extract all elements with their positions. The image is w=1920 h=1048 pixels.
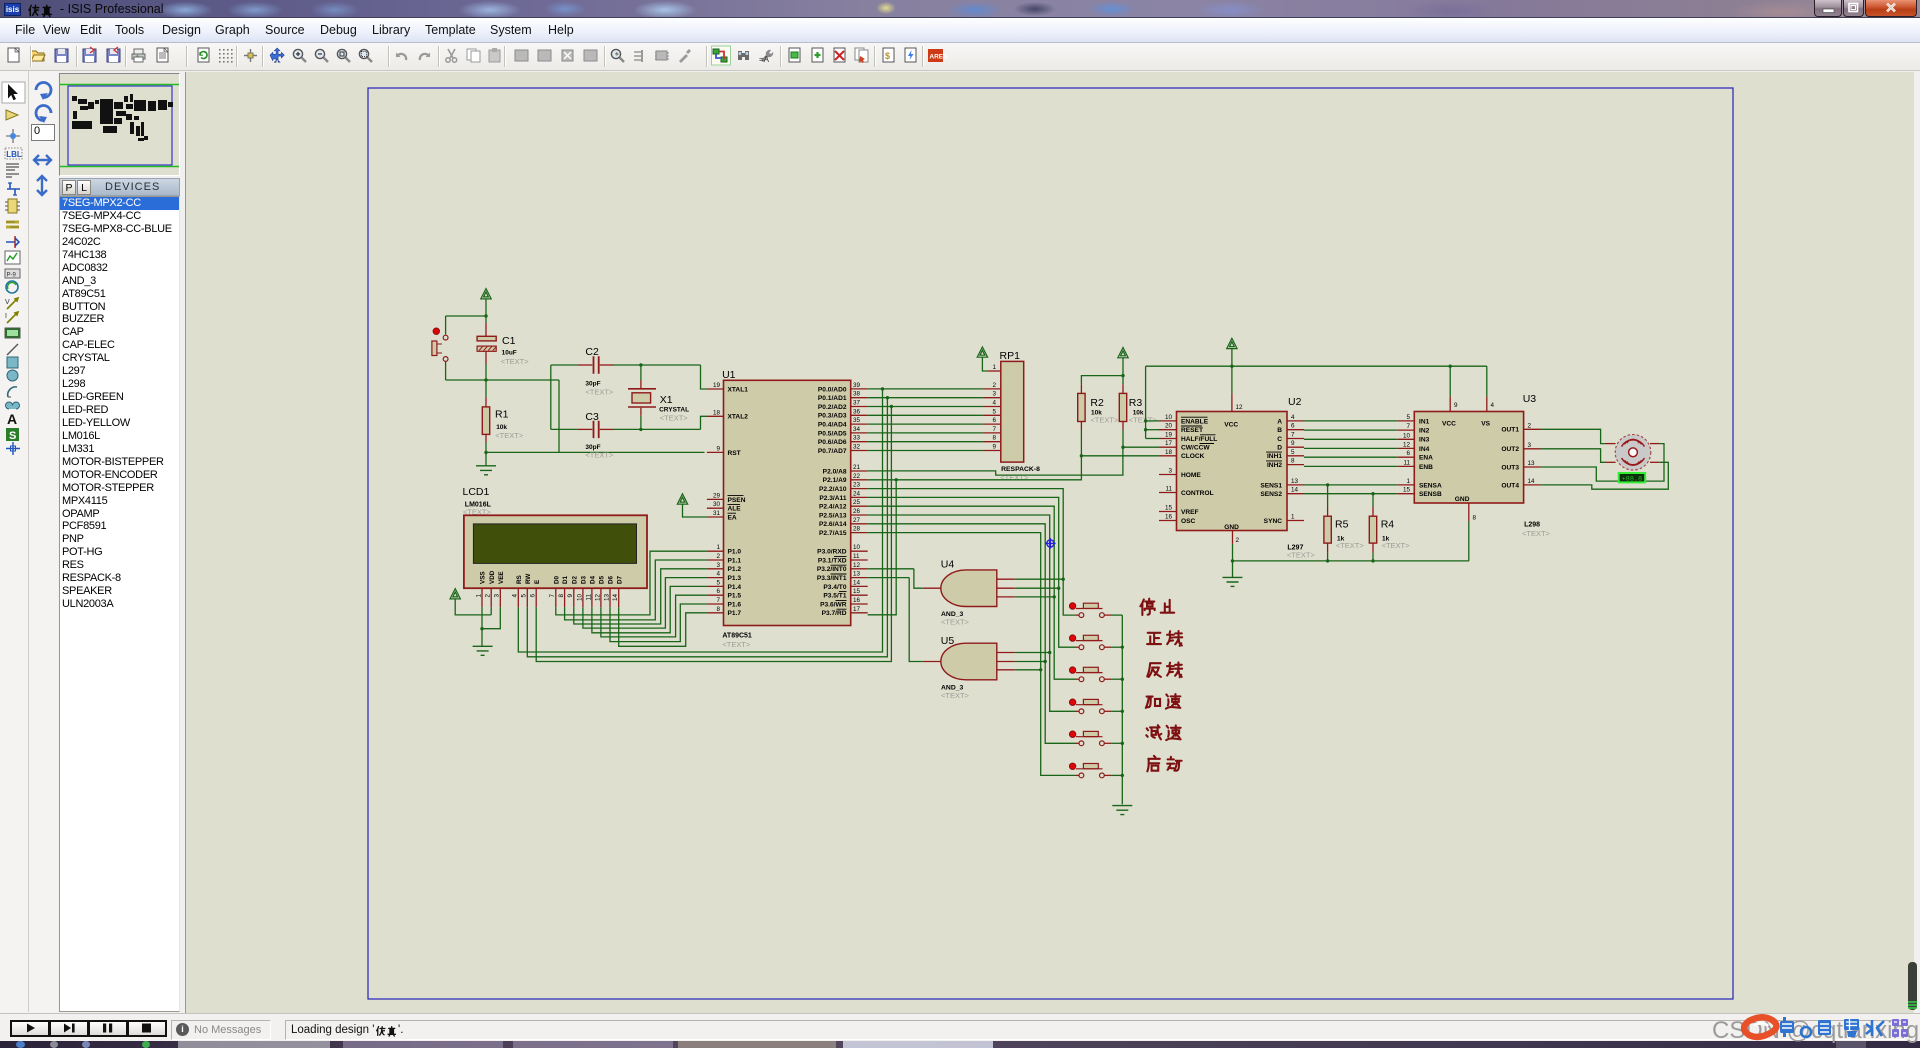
wire P2.6 to button 5	[868, 524, 1076, 744]
op U1 AT89C51	[724, 380, 851, 625]
svg-text:SENS1: SENS1	[1260, 482, 1282, 489]
svg-text:OUT4: OUT4	[1501, 482, 1519, 489]
svg-text:24: 24	[853, 490, 861, 497]
svg-text:ENA: ENA	[1419, 455, 1433, 462]
svg-text:P0.1/AD1: P0.1/AD1	[818, 395, 847, 402]
resistor R4	[1372, 494, 1374, 507]
wire SENS1	[1304, 484, 1397, 486]
svg-text:P-9: P-9	[7, 273, 17, 279]
ground	[1112, 806, 1132, 815]
svg-text:10: 10	[853, 544, 861, 551]
resistor R3	[1119, 393, 1126, 421]
svg-text:OSC: OSC	[1181, 518, 1196, 525]
U1 pin 12 P3.2/INT0	[851, 568, 868, 570]
ground	[1223, 577, 1243, 586]
svg-text:INH2: INH2	[1267, 462, 1282, 469]
svg-text:6: 6	[1406, 450, 1410, 457]
svg-text:32: 32	[853, 444, 861, 451]
U2 pin 6 B	[1287, 429, 1304, 431]
svg-text:10uF: 10uF	[502, 350, 517, 357]
svg-text:2: 2	[485, 594, 492, 598]
svg-text:6: 6	[530, 594, 537, 598]
svg-text:13: 13	[603, 594, 610, 602]
svg-text:OUT1: OUT1	[1501, 427, 1519, 434]
svg-text:I: I	[5, 313, 7, 320]
svg-text:D4: D4	[590, 575, 597, 584]
svg-text:3: 3	[494, 594, 501, 598]
svg-text:3: 3	[1528, 442, 1532, 449]
wire button 1 right	[1112, 614, 1122, 616]
svg-text:U1: U1	[722, 369, 736, 381]
svg-text:26: 26	[853, 508, 861, 515]
svg-text:D1: D1	[562, 575, 569, 584]
op U2 L297	[1177, 412, 1288, 531]
wire P3.2 row	[868, 568, 914, 570]
svg-text:14: 14	[1291, 487, 1299, 494]
svg-text:$: $	[885, 51, 890, 61]
svg-text:10: 10	[1165, 414, 1173, 421]
svg-text:P0.7/AD7: P0.7/AD7	[818, 448, 847, 455]
svg-text:D: D	[1277, 445, 1282, 452]
svg-text:B: B	[1277, 427, 1282, 434]
svg-text:P1.5: P1.5	[728, 593, 742, 600]
svg-text:P0.5/AD5: P0.5/AD5	[818, 430, 847, 437]
svg-text:P0.0/AD0: P0.0/AD0	[818, 386, 847, 393]
svg-text:31: 31	[713, 510, 721, 517]
U3 pin 15 SENSB	[1397, 493, 1414, 495]
label 减速	[1146, 725, 1161, 739]
svg-text:9: 9	[1291, 440, 1295, 447]
svg-text:CLOCK: CLOCK	[1181, 453, 1205, 460]
svg-text:4: 4	[992, 400, 996, 407]
svg-text:OUT2: OUT2	[1501, 446, 1519, 453]
wire R3 bottom to CW	[1122, 422, 1124, 431]
svg-text:R1: R1	[495, 409, 509, 421]
svg-text:34: 34	[853, 426, 861, 433]
svg-text:4: 4	[716, 571, 720, 578]
svg-text:OUT3: OUT3	[1501, 464, 1519, 471]
motor MOTOR-BISTEPPER	[1615, 435, 1651, 471]
svg-text:U3: U3	[1523, 393, 1537, 405]
RP1 pin 2	[983, 388, 1001, 390]
resistor R5	[1327, 485, 1329, 507]
wire SENS2	[1304, 493, 1397, 495]
svg-text:RW: RW	[525, 574, 532, 584]
svg-text:15: 15	[853, 588, 861, 595]
svg-text:16: 16	[853, 597, 861, 604]
svg-text:7: 7	[716, 597, 720, 604]
capacitor C3	[551, 428, 577, 430]
RP1 pin 1	[982, 357, 988, 371]
svg-text:5: 5	[1291, 449, 1295, 456]
LCD pin 13 D6	[609, 588, 611, 607]
wire VCC rail	[1146, 365, 1487, 367]
svg-text:P1.6: P1.6	[728, 601, 742, 608]
wire button 3 right	[1112, 678, 1122, 680]
svg-text:P2.4/A12: P2.4/A12	[819, 504, 847, 511]
wire x559 down	[558, 380, 560, 452]
svg-text:<TEXT>: <TEXT>	[941, 618, 970, 627]
U2 pin 1 SYNC	[1287, 520, 1304, 522]
wire P0.1 to RP1	[868, 397, 983, 399]
RP1 pin 6	[983, 423, 1001, 425]
wire RESET row	[1146, 429, 1159, 431]
wire P2.1 to P3.7	[868, 480, 897, 615]
svg-text:P3.4/T0: P3.4/T0	[823, 584, 846, 591]
svg-text:3: 3	[992, 391, 996, 398]
svg-text:7: 7	[1406, 423, 1410, 430]
wire D6-P1.6	[610, 604, 707, 642]
label 反转	[1147, 663, 1161, 677]
U2 pin 13 SENS1	[1287, 484, 1304, 486]
wire CLOCK row	[1081, 455, 1159, 457]
svg-text:RST: RST	[728, 450, 741, 457]
svg-text:13: 13	[1528, 460, 1536, 467]
svg-text:2: 2	[716, 553, 720, 560]
wire D0-P1.0	[556, 551, 707, 615]
LCD pin 10 D3	[582, 588, 584, 607]
svg-text:INH1: INH1	[1267, 453, 1282, 460]
wire button 5 right	[1112, 742, 1122, 744]
svg-text:IN2: IN2	[1419, 428, 1430, 435]
resistor pack RP1	[1001, 361, 1024, 462]
svg-text:27: 27	[853, 517, 861, 524]
LCD pin 3 VEE	[499, 588, 501, 607]
svg-text:7: 7	[992, 426, 996, 433]
svg-text:D3: D3	[581, 575, 588, 584]
U1 pin 3 P1.2	[707, 568, 724, 570]
svg-text:8: 8	[992, 435, 996, 442]
U1 pin 18 XTAL2	[707, 415, 724, 417]
svg-text:P1.7: P1.7	[728, 610, 742, 617]
svg-text:VSS: VSS	[480, 571, 487, 584]
svg-text:P0.3/AD3: P0.3/AD3	[818, 413, 847, 420]
svg-text:15: 15	[1165, 505, 1173, 512]
svg-text:<TEXT>: <TEXT>	[941, 691, 970, 700]
svg-text:9: 9	[716, 445, 720, 452]
U1 pin 8 P1.7	[707, 612, 724, 614]
svg-text:<TEXT>: <TEXT>	[585, 451, 614, 460]
RP1 pin 3	[983, 397, 1001, 399]
svg-text:P3.3/INT1: P3.3/INT1	[817, 575, 847, 582]
svg-text:EA: EA	[728, 514, 737, 521]
svg-text:U5: U5	[941, 635, 955, 647]
wire P0.4 to RP1	[868, 423, 983, 425]
wire P0.5 to RP1	[868, 432, 983, 434]
svg-text:CRYSTAL: CRYSTAL	[659, 407, 689, 414]
power symbol	[450, 589, 460, 599]
svg-text:5: 5	[1406, 414, 1410, 421]
svg-text:35: 35	[853, 417, 861, 424]
U3 pin 3 OUT2	[1524, 448, 1541, 450]
U1 pin 32 P0.7/AD7	[851, 450, 868, 452]
U1 pin 35 P0.4/AD4	[851, 423, 868, 425]
svg-text:GND: GND	[1224, 524, 1239, 531]
resistor R2	[1078, 393, 1085, 421]
LCD pin 8 D1	[564, 588, 566, 607]
svg-text:D7: D7	[616, 575, 623, 584]
svg-text:9: 9	[567, 594, 574, 598]
svg-text:5: 5	[992, 408, 996, 415]
wire P2.1 to CLOCK	[868, 456, 1082, 480]
U3 pin 7 IN2	[1397, 429, 1414, 431]
svg-text:CW/CCW: CW/CCW	[1181, 445, 1210, 452]
svg-text:1: 1	[716, 544, 720, 551]
svg-text:HOME: HOME	[1181, 472, 1201, 479]
svg-text:P3.6/WR: P3.6/WR	[820, 601, 847, 608]
svg-text:6: 6	[992, 417, 996, 424]
wire D5-P1.5	[601, 595, 707, 637]
U1 pin 21 P2.0/A8	[851, 470, 868, 472]
svg-text:ENABLE: ENABLE	[1181, 418, 1209, 425]
svg-text:SENS2: SENS2	[1260, 491, 1282, 498]
svg-text:VDD: VDD	[489, 570, 496, 584]
wire VDD-VCC	[455, 599, 491, 615]
svg-text:R3: R3	[1129, 397, 1143, 409]
svg-text:R5: R5	[1335, 519, 1349, 531]
svg-text:10k: 10k	[496, 424, 507, 431]
U3 pin 5 IN1	[1397, 420, 1414, 422]
svg-text:D2: D2	[571, 575, 578, 584]
wire P2.5 to button 4	[868, 515, 1076, 711]
U1 pin 33 P0.6/AD6	[851, 441, 868, 443]
svg-text:21: 21	[853, 464, 861, 471]
U3 pin 12 IN4	[1397, 447, 1414, 449]
svg-text:14: 14	[853, 579, 861, 586]
svg-text:18: 18	[713, 409, 721, 416]
svg-text:P1.1: P1.1	[728, 557, 742, 564]
wire button bottom	[445, 362, 447, 381]
U5 output wire	[923, 661, 941, 663]
svg-text:7: 7	[549, 594, 556, 598]
U2 pin 14 SENS2	[1287, 493, 1304, 495]
origin marker	[1047, 540, 1054, 547]
op U5 AND_3	[941, 643, 997, 680]
svg-text:ENB: ENB	[1419, 464, 1433, 471]
svg-text:29: 29	[713, 492, 721, 499]
svg-text:LBL: LBL	[6, 150, 22, 159]
RP1 pin 5	[983, 414, 1001, 416]
U1 pin 10 P3.0/RXD	[851, 550, 868, 552]
svg-text:2: 2	[992, 382, 996, 389]
svg-text:P1.2: P1.2	[728, 566, 742, 573]
U2 pin 11 CONTROL	[1159, 492, 1177, 494]
button 正转	[1076, 646, 1079, 648]
svg-text:RS: RS	[516, 575, 523, 584]
U2 pin 10 ENABLE	[1159, 420, 1177, 422]
wire RS	[518, 389, 882, 652]
svg-text:1: 1	[1291, 514, 1295, 521]
wire P2.0 to CW/CCW	[868, 447, 1123, 475]
svg-text:2: 2	[1236, 537, 1240, 544]
power symbol	[1227, 338, 1237, 348]
svg-text:10: 10	[1403, 432, 1411, 439]
wire U2 gnd	[1232, 544, 1234, 578]
svg-text:X1: X1	[660, 394, 673, 406]
U2 pin 7 C	[1287, 438, 1304, 440]
svg-text:13: 13	[853, 571, 861, 578]
wire XTAL2	[701, 416, 707, 429]
LCD pin 1 VSS	[481, 588, 483, 607]
wire P2.7 to button 6	[868, 533, 1076, 776]
svg-text:9: 9	[992, 444, 996, 451]
svg-text:IN1: IN1	[1419, 418, 1430, 425]
svg-text:P0.2/AD2: P0.2/AD2	[818, 404, 847, 411]
ground	[476, 466, 496, 475]
svg-text:ALE: ALE	[728, 506, 742, 513]
U1 pin 30 ALE	[707, 507, 724, 509]
wire OUT1-motor	[1541, 429, 1605, 443]
U2 pin 3 HOME	[1159, 474, 1177, 476]
sheet border	[368, 88, 1733, 999]
svg-text:VREF: VREF	[1181, 509, 1199, 516]
RP1 pin 4	[983, 406, 1001, 408]
button 反转	[1076, 678, 1079, 680]
wire D2-P1.2	[574, 569, 707, 624]
U2 pin 5 INH1	[1287, 455, 1304, 457]
power symbol	[1118, 348, 1128, 358]
wire P2.2 to button 1	[868, 489, 1076, 615]
svg-text:19: 19	[713, 382, 721, 389]
wire D7-P1.7	[619, 607, 707, 646]
U3 pin 13 OUT3	[1524, 466, 1541, 468]
U1 pin 19 XTAL1	[707, 388, 724, 390]
svg-text:SYNC: SYNC	[1264, 518, 1283, 525]
U5 input stubs	[997, 652, 1015, 654]
U2 pin 18 CLOCK	[1159, 455, 1177, 457]
U1 pin 24 P2.3/A11	[851, 496, 868, 498]
motor display	[1619, 473, 1646, 482]
LCD pin 12 D5	[600, 588, 602, 607]
wire D4-P1.4	[592, 586, 707, 632]
svg-text:P3.1/TXD: P3.1/TXD	[818, 557, 847, 564]
U3 pin 2 OUT1	[1524, 428, 1541, 430]
svg-text:16: 16	[1165, 514, 1173, 521]
RP1 pin 8	[983, 441, 1001, 443]
U2 pin 17 CW/CCW	[1159, 446, 1177, 448]
svg-text:E: E	[534, 580, 541, 584]
label 加速	[1146, 697, 1160, 708]
button 加速	[1076, 710, 1079, 712]
svg-text:CONTROL: CONTROL	[1181, 490, 1214, 497]
wire R2 bottom to CLOCK	[1080, 422, 1082, 431]
svg-text:V: V	[5, 299, 10, 306]
wire D3-P1.3	[583, 578, 707, 629]
svg-text:10: 10	[576, 594, 583, 602]
U1 pin 27 P2.6/A14	[851, 523, 868, 525]
svg-text:7: 7	[1291, 432, 1295, 439]
U1 pin 17 P3.7/RD	[851, 612, 868, 614]
U1 pin 29 PSEN	[707, 498, 724, 500]
U3 pin 11 ENB	[1397, 465, 1414, 467]
U2 pin 16 OSC	[1159, 520, 1177, 522]
svg-text:R2: R2	[1090, 397, 1104, 409]
svg-text:<TEXT>: <TEXT>	[1000, 473, 1029, 482]
wire U3 gnd	[1468, 521, 1470, 561]
svg-text:<TEXT>: <TEXT>	[585, 388, 614, 397]
power symbol	[677, 494, 687, 504]
svg-text:5: 5	[716, 579, 720, 586]
U1 pin 23 P2.2/A10	[851, 488, 868, 490]
wire RST row	[486, 451, 705, 453]
svg-text:12: 12	[1403, 441, 1411, 448]
svg-text:8: 8	[1291, 458, 1295, 465]
wire OUT3-motor	[1541, 444, 1664, 482]
svg-text:30: 30	[713, 501, 721, 508]
svg-text:P3.7/RD: P3.7/RD	[822, 610, 847, 617]
svg-text:<TEXT>: <TEXT>	[1336, 541, 1365, 550]
svg-text:VCC: VCC	[1442, 420, 1456, 427]
ground	[473, 646, 493, 655]
wire button 6 right	[1112, 774, 1122, 776]
svg-text:2: 2	[1528, 422, 1532, 429]
svg-text:P2.5/A13: P2.5/A13	[819, 512, 847, 519]
LCD pin 2 VDD	[490, 588, 492, 607]
svg-text:<TEXT>: <TEXT>	[1522, 529, 1551, 538]
svg-text:30pF: 30pF	[585, 381, 600, 388]
svg-text:C2: C2	[585, 346, 599, 358]
wire VSS gnd	[481, 607, 483, 646]
U3 pin 10 IN3	[1397, 438, 1414, 440]
svg-text:17: 17	[1165, 440, 1173, 447]
label 正转	[1147, 633, 1161, 644]
wire EA	[683, 504, 707, 517]
svg-text:<TEXT>: <TEXT>	[1129, 415, 1158, 424]
svg-text:GND: GND	[1455, 496, 1470, 503]
U1 pin 14 P3.4/T0	[851, 585, 868, 587]
wire y380	[446, 379, 559, 381]
svg-text:11: 11	[1403, 459, 1410, 466]
U1 pin 6 P1.5	[707, 594, 724, 596]
svg-text:22: 22	[853, 473, 861, 480]
U1 pin 7 P1.6	[707, 603, 724, 605]
svg-text:11: 11	[853, 553, 860, 560]
crystal X1	[640, 365, 642, 380]
svg-text:14: 14	[1528, 478, 1536, 485]
svg-text:U2: U2	[1288, 396, 1302, 408]
svg-text:C: C	[1277, 436, 1282, 443]
svg-text:17: 17	[853, 606, 861, 613]
wire P3.3 row	[868, 577, 910, 579]
svg-text:P2.3/A11: P2.3/A11	[819, 495, 846, 502]
svg-text:8: 8	[1473, 515, 1477, 522]
svg-text:C1: C1	[502, 335, 516, 347]
button 停止	[1076, 614, 1079, 616]
svg-text:P2.6/A14: P2.6/A14	[819, 521, 847, 528]
svg-text:37: 37	[853, 400, 861, 407]
wire P2.4 to button 3	[868, 506, 1076, 679]
wire P2.3 to button 2	[868, 497, 1076, 647]
svg-text:P2.2/A10: P2.2/A10	[819, 486, 847, 493]
wire VCC to button top	[446, 315, 486, 317]
wire button top	[445, 316, 447, 335]
U1 pin 1 P1.0	[707, 550, 724, 552]
svg-text:5: 5	[521, 594, 528, 598]
svg-text:4: 4	[1491, 402, 1495, 409]
wire button 2 right	[1112, 646, 1122, 648]
svg-text:P0.4/AD4: P0.4/AD4	[818, 422, 847, 429]
svg-text:33: 33	[853, 435, 861, 442]
svg-text:36: 36	[853, 408, 861, 415]
svg-text:<TEXT>: <TEXT>	[495, 431, 524, 440]
svg-text:IN4: IN4	[1419, 446, 1430, 453]
U1 pin 9 RST	[707, 451, 724, 453]
capacitor C1	[485, 323, 487, 336]
U1 pin 34 P0.5/AD5	[851, 432, 868, 434]
label 停止	[1140, 599, 1154, 615]
svg-text:C3: C3	[585, 411, 599, 423]
svg-text:6: 6	[716, 588, 720, 595]
